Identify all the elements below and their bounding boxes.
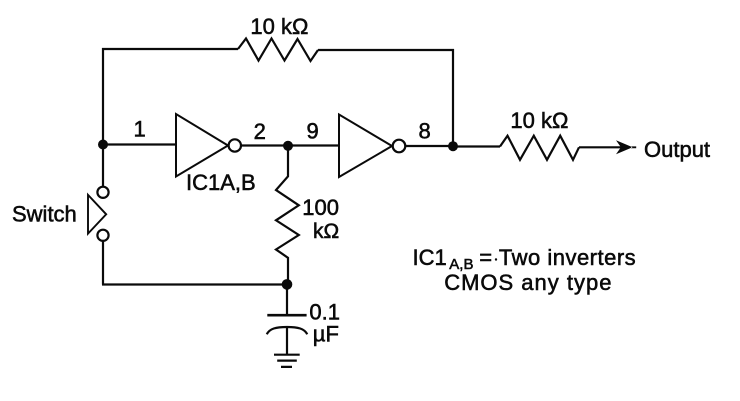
resistor R3 10 kOhm output [500, 136, 579, 160]
inverter U1A bubble [229, 139, 241, 151]
capacitor C1 top plate [267, 314, 306, 317]
svg-text:8: 8 [419, 119, 431, 144]
inverter U1B triangle [339, 115, 392, 178]
svg-text:IC1: IC1 [413, 245, 447, 270]
svg-text:IC1A,B: IC1A,B [186, 170, 256, 195]
wire node D to capacitor [286, 285, 288, 315]
arrow head output [616, 140, 636, 154]
svg-text:10 kΩ: 10 kΩ [250, 14, 308, 39]
svg-text:Switch: Switch [12, 201, 77, 226]
svg-text:2: 2 [254, 119, 266, 144]
wire capacitor to ground [286, 328, 288, 355]
svg-text:100: 100 [302, 195, 339, 220]
inverter U1B bubble [393, 140, 406, 153]
switch S1 bottom contact circle [97, 230, 108, 241]
svg-text:10 kΩ: 10 kΩ [510, 108, 568, 133]
ink speck [495, 258, 497, 260]
svg-text:CMOS any type: CMOS any type [444, 270, 612, 295]
wire top horizontal right [318, 49, 454, 51]
wire R3 to arrow [579, 146, 622, 148]
capacitor C1 bottom plate [267, 327, 307, 334]
resistor R1 10 kOhm feedback [238, 39, 318, 62]
inverter U1A triangle [176, 114, 228, 177]
wire node A to inverter input [103, 143, 177, 145]
node C junction dot [448, 141, 458, 151]
svg-text:9: 9 [307, 118, 319, 143]
wire top horizontal left [102, 48, 238, 50]
wire inverter U1A out to inverter U1B in [241, 144, 340, 146]
svg-text:kΩ: kΩ [313, 220, 339, 243]
resistor R2 100 kOhm [276, 146, 299, 285]
ground [274, 355, 300, 367]
svg-text:1: 1 [134, 117, 146, 142]
wire top-left vertical [102, 48, 104, 187]
wire feedback right vertical [452, 49, 454, 147]
wire inverter U1B out to node C [405, 145, 453, 147]
switch S1 actuator triangle [88, 195, 106, 234]
node B junction dot [283, 141, 293, 151]
wire node C to resistor R3 [453, 145, 500, 147]
switch S1 top contact circle [97, 187, 108, 198]
svg-text:= Two inverters: = Two inverters [479, 245, 636, 270]
svg-text:µF: µF [313, 322, 339, 347]
wire switch to bottom rail [102, 241, 288, 285]
svg-text:Output: Output [644, 137, 710, 162]
node A junction dot [98, 140, 108, 150]
node D junction dot [282, 279, 293, 290]
